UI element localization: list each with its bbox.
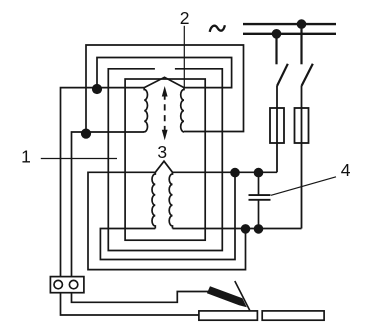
svg-text:1: 1 <box>21 147 31 167</box>
core outer outline with air gap at top (1) <box>108 69 222 251</box>
fuse F2 <box>295 108 309 143</box>
capacitor C top plate <box>249 194 271 196</box>
arrowhead up <box>162 86 168 97</box>
upper-right winding 2 <box>181 88 184 132</box>
AC supply bus line top <box>243 23 336 25</box>
label 1 leader line <box>41 158 117 160</box>
AC source symbol ~ <box>210 25 225 32</box>
junction node F1 <box>241 224 251 234</box>
junction dot1 <box>92 84 102 94</box>
switch S1 lead from bottom bus <box>275 34 277 65</box>
label 2 leader line <box>183 26 185 88</box>
workpiece plate right <box>262 311 324 320</box>
capacitor C bottom plate <box>249 199 271 201</box>
secondary bottom wire with drop to terminal board and electrode wire <box>72 132 209 302</box>
label 4 leader line <box>271 177 336 196</box>
node on top bus <box>297 19 307 29</box>
core inner outline <box>125 79 205 240</box>
upper-left winding <box>144 88 147 132</box>
AC supply bus line bottom <box>243 33 336 35</box>
svg-text:2: 2 <box>180 8 190 28</box>
upper yoke wire chevron <box>144 77 184 87</box>
secondary top wire with drop to terminal board <box>61 88 199 315</box>
node on bottom bus <box>272 29 282 39</box>
junction node E2 capacitor top <box>254 168 264 178</box>
wire cross-connection riser left-coil bottom to node E <box>100 172 235 259</box>
wire S1 to fuse F1 and down to node E <box>276 86 278 172</box>
wire S2 to fuse F2 and down to wire F <box>301 86 303 229</box>
switch S2 lead from top bus <box>300 24 302 64</box>
capacitor C top lead <box>258 172 260 195</box>
terminal left <box>54 280 62 288</box>
wire F (primary bottom node to fuse F2) <box>173 228 302 230</box>
switch S2 blade <box>302 64 313 86</box>
junction node F2 capacitor bottom <box>254 224 264 234</box>
capacitor C bottom lead <box>258 200 260 229</box>
electrode <box>235 281 250 311</box>
junction dot2 <box>81 129 91 139</box>
fuse F1 <box>270 108 284 143</box>
workpiece plate left <box>199 311 258 320</box>
lower-left winding <box>152 172 155 228</box>
switch S1 blade <box>277 64 288 86</box>
terminal right <box>69 280 77 288</box>
lower yoke wire chevron <box>155 161 172 172</box>
loop A wire (left coil bottom to right coil bottom) <box>86 45 244 132</box>
movement dashed arrow 3 shaft <box>164 94 166 131</box>
svg-text:3: 3 <box>157 142 167 162</box>
terminal board <box>50 277 84 293</box>
loop B wire (left coil top to right coil top) <box>97 58 232 88</box>
wire cross-connection left-coil top to node F <box>88 172 246 269</box>
arrowhead down <box>162 130 168 141</box>
svg-text:4: 4 <box>341 160 351 180</box>
wire E (primary top node to fuse F1) <box>173 171 278 173</box>
junction node E1 <box>230 168 240 178</box>
electrode holder <box>207 286 247 307</box>
lower-right winding <box>169 172 172 228</box>
